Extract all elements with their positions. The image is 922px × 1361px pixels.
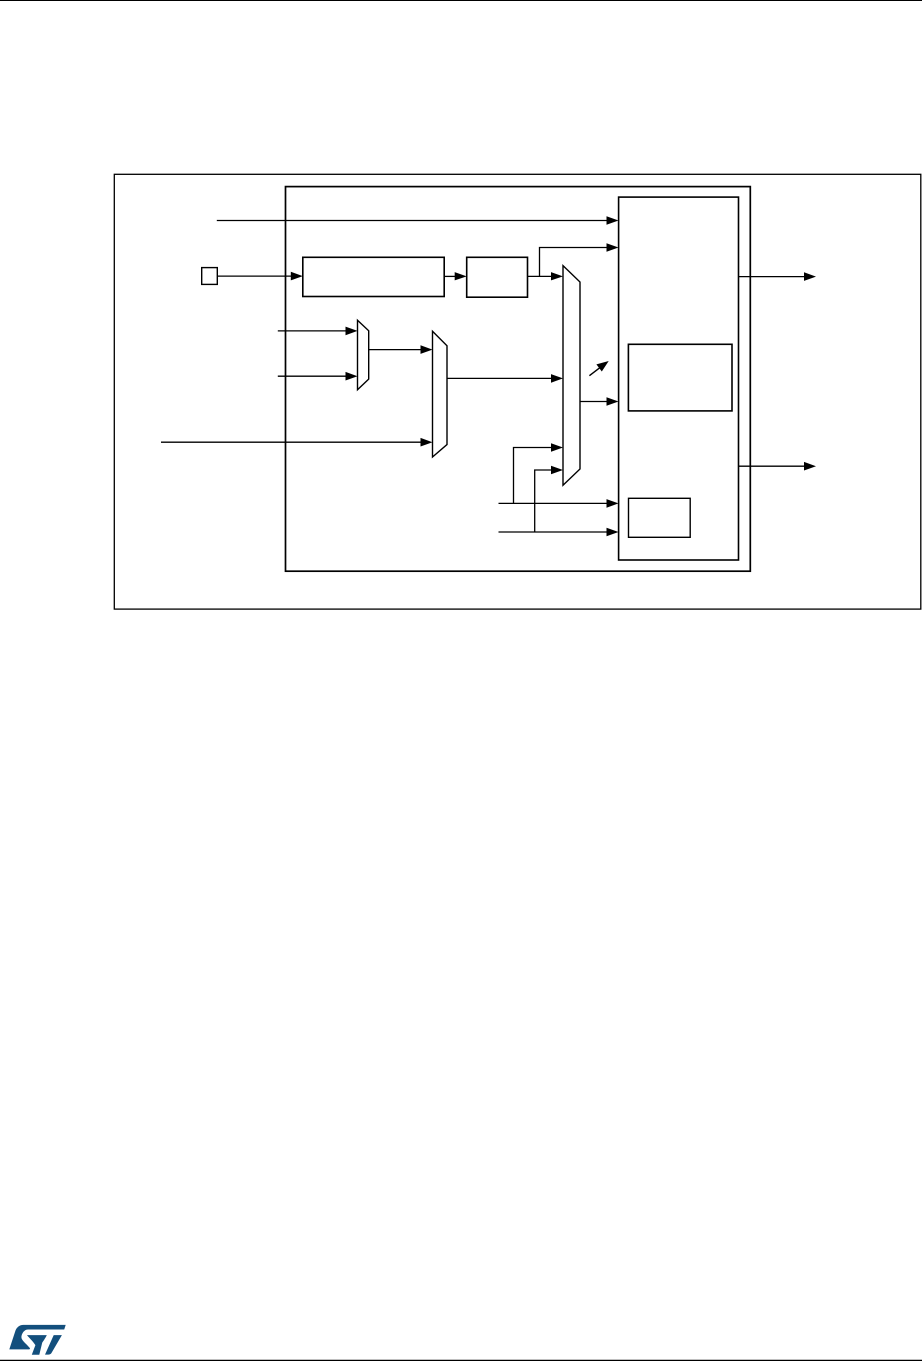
wire: pin to B1 <box>217 272 302 281</box>
box B1 (prescaler) <box>303 257 444 296</box>
wire: branch B up to mux M3 <box>535 466 563 532</box>
wire: B1 to B2 <box>444 272 467 280</box>
top page rule <box>0 0 922 2</box>
figure frame <box>114 174 921 609</box>
wire: mux M2 to mux M3 <box>447 374 563 383</box>
wire: external input to mux M2 <box>161 438 433 447</box>
wire: input 1 to mux M1 <box>278 327 358 336</box>
block border (inner rectangle) <box>286 187 751 572</box>
wire: top input to U1 <box>217 216 619 225</box>
upper register box <box>628 344 732 411</box>
box B2 (counter) <box>467 257 528 297</box>
wire: U1 output 2 <box>739 462 817 471</box>
wire: bottom line A to U1 <box>499 499 619 508</box>
mux M2 <box>433 331 448 457</box>
input pin square <box>202 268 218 285</box>
wire: branch A up to mux M3 <box>514 443 564 503</box>
mux M3 (main) <box>563 266 580 486</box>
bottom page rule <box>0 1359 922 1361</box>
mux M1 <box>358 320 369 390</box>
wire: input 2 to mux M1 <box>278 372 358 381</box>
wire: mux M1 to mux M2 <box>369 345 433 354</box>
wire: bottom line B to U1 <box>499 528 619 537</box>
wire: mux M3 output to U1 <box>580 397 619 406</box>
wire: B2 to mux M3 <box>528 272 564 280</box>
wire: elbow B2 up to U1 <box>540 243 619 276</box>
lower register box <box>629 498 691 537</box>
right block U1 <box>619 197 739 560</box>
wire: U1 output 1 <box>739 272 817 281</box>
mux select arrow <box>589 361 608 376</box>
ST logo <box>9 1325 65 1355</box>
